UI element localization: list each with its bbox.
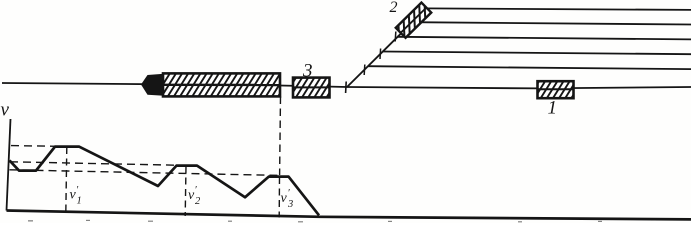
svg-text:2: 2 [390,0,398,16]
svg-text:′: ′ [288,188,291,199]
svg-text:3: 3 [302,61,313,82]
svg-text:3: 3 [287,199,293,210]
svg-text:1: 1 [548,98,558,119]
svg-text:v: v [281,191,288,206]
svg-text:′: ′ [195,185,198,196]
svg-text:1: 1 [77,196,82,207]
svg-text:′: ′ [76,185,79,196]
svg-text:2: 2 [195,196,201,207]
svg-text:v: v [1,100,10,121]
